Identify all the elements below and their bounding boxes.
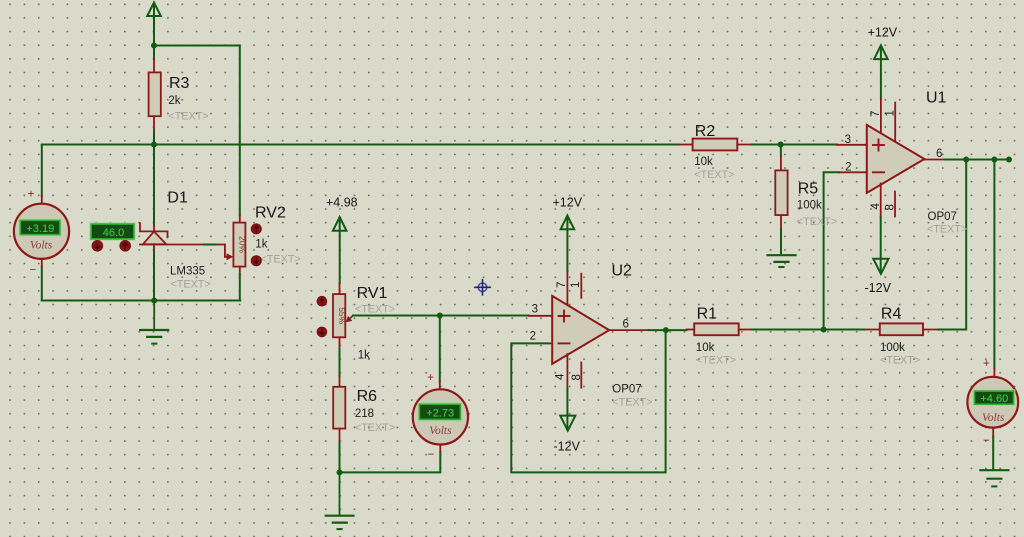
resistor R3 [149, 59, 209, 131]
svg-text:+: + [983, 358, 990, 370]
svg-text:<TEXT>: <TEXT> [171, 279, 211, 291]
svg-text:218: 218 [355, 408, 374, 420]
resistor R5 [775, 156, 837, 229]
wire R4 right up to output [938, 160, 966, 330]
potentiometer RV2 [233, 205, 300, 275]
ground under PV3 [980, 470, 1008, 486]
svg-text:55%: 55% [337, 307, 347, 324]
svg-text:1: 1 [570, 282, 582, 288]
op-amp U2 [529, 263, 653, 409]
svg-text:−: − [983, 435, 990, 447]
svg-text:R5: R5 [798, 181, 819, 198]
voltmeter PV2 +2.73 [413, 372, 468, 461]
svg-text:+12V: +12V [868, 25, 898, 39]
svg-text:+2.73: +2.73 [426, 407, 454, 419]
svg-text:U1: U1 [926, 90, 947, 107]
D1 temperature display 46.0 [90, 223, 135, 240]
svg-text:3: 3 [532, 304, 538, 316]
svg-text:10k: 10k [694, 156, 713, 168]
resistor R2 [679, 123, 751, 181]
svg-text:LM335: LM335 [170, 266, 205, 278]
wire PV3 bottom [992, 437, 994, 470]
RV2 down button [251, 256, 261, 266]
svg-text:6: 6 [623, 319, 629, 331]
node junction R6/meter rail [337, 469, 343, 475]
svg-text:OP07: OP07 [612, 384, 641, 396]
wire R5 bottom [780, 229, 782, 255]
wire R6 bottom [339, 443, 341, 473]
node junction at R3 top [151, 43, 157, 49]
resistor R6 [333, 376, 395, 443]
wire U1 output [945, 159, 1009, 161]
wire RV2 bottom to rail [239, 274, 241, 301]
wire D1 anode bottom [153, 251, 155, 301]
wire R1 to R4 node [753, 329, 824, 331]
diode D1 LM335 [140, 223, 233, 260]
resistor R4 [864, 306, 938, 367]
svg-text:+: + [28, 189, 35, 201]
svg-text:U2: U2 [612, 263, 633, 280]
svg-text:1k: 1k [358, 350, 370, 362]
wire node to R4 [824, 329, 864, 331]
wire main bus horizontal [42, 144, 679, 146]
svg-text:+: + [427, 372, 434, 384]
svg-text:7: 7 [870, 111, 882, 117]
RV2 up button [251, 224, 261, 234]
wire U1 feedback vertical [824, 172, 839, 329]
wire node to U2 pin3 [440, 315, 529, 317]
wire output to voltmeter PV3 [993, 160, 995, 369]
svg-text:100k: 100k [797, 200, 822, 212]
node junction output/meter [991, 157, 997, 163]
RV1 down button [317, 327, 327, 337]
wire U2 negative supply [566, 354, 568, 388]
svg-text:−: − [428, 449, 435, 461]
ground under D1 [140, 301, 168, 344]
wire voltmeter PV1 bottom [41, 267, 43, 301]
wire node to voltmeter PV2 [439, 316, 441, 382]
potentiometer RV1 [333, 283, 395, 362]
svg-text:3: 3 [845, 134, 851, 146]
svg-text:<TEXT>: <TEXT> [880, 355, 920, 367]
wire RV1 wiper to node [353, 315, 440, 317]
svg-text:R2: R2 [695, 123, 716, 140]
svg-text:8: 8 [884, 204, 896, 210]
wire RV1 bottom to R6 [339, 349, 341, 377]
ground under R6 [326, 472, 354, 529]
svg-text:<TEXT>: <TEXT> [355, 304, 395, 316]
D1 labels [167, 190, 210, 291]
voltmeter PV3 +4.60 [967, 358, 1018, 447]
svg-text:R4: R4 [881, 306, 902, 323]
svg-text:<TEXT>: <TEXT> [612, 397, 652, 409]
power arrow -12V U2 [560, 416, 575, 431]
svg-text:−: − [29, 265, 36, 277]
svg-text:<TEXT>: <TEXT> [694, 169, 734, 181]
svg-text:<TEXT>: <TEXT> [261, 254, 301, 266]
node wire end dot [1006, 157, 1012, 163]
svg-text:<TEXT>: <TEXT> [927, 224, 967, 236]
node junction ground rail [151, 298, 157, 304]
svg-text:RV1: RV1 [357, 285, 388, 302]
svg-text:+12V: +12V [553, 196, 583, 210]
wire R5 top [780, 145, 782, 157]
svg-text:2: 2 [845, 162, 851, 174]
wire bottom rail left [42, 300, 240, 302]
svg-text:4: 4 [555, 373, 567, 380]
node junction wiper/meter [437, 313, 443, 319]
node junction output/R4 [963, 157, 969, 163]
node junction U2 output/feedback [663, 327, 669, 333]
svg-text:2: 2 [530, 331, 536, 343]
node junction R3/bus [151, 142, 157, 148]
resistor R1 [687, 306, 753, 367]
power arrow +12V U2 [561, 216, 575, 272]
svg-text:<TEXT>: <TEXT> [797, 216, 837, 228]
op-amp U1 [837, 90, 967, 236]
wire voltmeter PV1 top drop [41, 145, 43, 197]
svg-text:<TEXT>: <TEXT> [168, 111, 208, 123]
wire RV2 column vertical [239, 46, 241, 216]
svg-text:Volts: Volts [30, 240, 53, 252]
wire meter bottom rail [340, 452, 441, 472]
svg-text:46.0: 46.0 [103, 227, 124, 239]
svg-text:+4.98: +4.98 [326, 196, 358, 210]
svg-text:R3: R3 [169, 75, 190, 92]
svg-text:1k: 1k [255, 239, 267, 251]
wire R2 to U1 pin3 [751, 144, 837, 146]
svg-text:<TEXT>: <TEXT> [355, 422, 395, 434]
power arrow +4.98 [333, 217, 347, 283]
svg-text:RV2: RV2 [255, 205, 286, 222]
svg-text:OP07: OP07 [928, 211, 957, 223]
origin marker (blue) [475, 280, 490, 295]
D1 down button [92, 241, 103, 252]
svg-text:Volts: Volts [982, 412, 1005, 424]
svg-text:Volts: Volts [429, 425, 452, 437]
wire D1 cathode top [153, 145, 155, 226]
svg-text:20%: 20% [238, 236, 248, 253]
wire U1 negative supply [880, 184, 882, 218]
svg-text:100k: 100k [880, 342, 905, 354]
svg-text:-12V: -12V [554, 440, 581, 454]
svg-text:<TEXT>: <TEXT> [696, 355, 736, 367]
power arrow VCC top-left [147, 3, 161, 46]
svg-text:-12V: -12V [865, 281, 892, 295]
wire R3 bottom to bus [153, 131, 155, 145]
node junction R1/R4/U1 pin2 [821, 327, 827, 333]
svg-text:R6: R6 [357, 388, 378, 405]
power arrow -12V U1 [873, 259, 888, 274]
svg-text:2k: 2k [168, 95, 180, 107]
ground under R5 [768, 255, 796, 267]
wire D1 adj mid segment [204, 244, 216, 246]
voltmeter PV1 +3.19 [14, 189, 69, 277]
wire U2 feedback loop [511, 330, 665, 472]
wire R3 top [153, 46, 155, 60]
svg-text:R1: R1 [697, 306, 718, 323]
RV1 up button [317, 296, 327, 306]
svg-text:10k: 10k [696, 342, 715, 354]
power arrow +12V U1 [874, 45, 888, 98]
svg-text:D1: D1 [167, 190, 188, 207]
wire top horizontal to RV2 column [154, 45, 240, 47]
svg-text:+4.60: +4.60 [980, 393, 1008, 405]
svg-text:1: 1 [884, 110, 896, 116]
svg-text:7: 7 [556, 282, 568, 288]
node junction R2/R5 [778, 142, 784, 148]
svg-text:+3.19: +3.19 [26, 223, 54, 235]
wire U2 output [649, 329, 687, 331]
svg-text:8: 8 [571, 374, 583, 380]
D1 up button [120, 241, 131, 252]
svg-text:6: 6 [936, 148, 942, 160]
